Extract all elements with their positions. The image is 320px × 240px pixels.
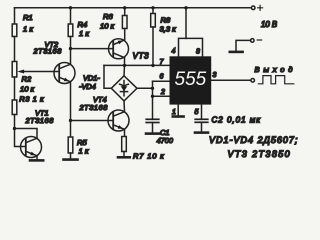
svg-text:6: 6 [160,74,164,81]
svg-text:2: 2 [160,89,165,96]
svg-text:8: 8 [196,49,200,56]
svg-text:R4: R4 [78,20,88,29]
resistor R3 [12,100,17,115]
wire node to VT4 base [71,120,114,122]
node rail R8 [151,6,154,9]
wiper arrow R2 [17,70,24,74]
diode bridge VD1-VD4 [111,76,137,101]
svg-text:R8: R8 [161,16,171,25]
svg-text:1 к: 1 к [79,29,89,38]
wire C1 column [152,81,154,119]
wire pin3 output [211,79,251,81]
wire pin1 to ground [177,105,179,116]
resistor R5 [68,137,73,153]
svg-text:R5: R5 [77,138,87,147]
resistor R4 [68,24,73,37]
wire VT2 emitter down [70,82,72,121]
wire C2 to ground [201,122,203,132]
wire rail to loop [185,8,187,39]
ground under R7 [118,156,130,159]
ground under C1 [146,132,159,135]
svg-text:5: 5 [195,109,199,116]
svg-text:3,3 к: 3,3 к [160,25,177,34]
svg-text:R7 10 к: R7 10 к [133,152,165,161]
wire VT3 bottom [124,58,126,66]
svg-text:C2 0,01 мк: C2 0,01 мк [212,116,262,125]
svg-text:2T3168: 2T3168 [25,116,55,125]
resistor R2 (pot) [12,62,17,78]
wire R7 to ground [123,152,125,157]
wire pin5 to C2 [201,105,203,120]
wire rail-R6 [124,8,126,15]
capacitor C2 [195,118,208,120]
svg-text:1 к: 1 к [23,25,33,34]
node bridge/C1 [151,87,154,90]
svg-text:2T3168: 2T3168 [33,47,63,56]
node R4/VT2/VT3 [69,47,72,50]
ground under pin1 [173,115,184,118]
svg-text:1 к: 1 к [79,147,89,156]
svg-text:R3 1 к: R3 1 к [19,95,44,104]
resistor R1 [12,24,17,37]
wire node to VT1 collector [15,129,38,139]
svg-text:4700: 4700 [157,136,174,145]
wire pins 4-8 loop [179,38,203,56]
wire R4 to node [70,37,72,49]
svg-text:R1: R1 [23,13,33,22]
minus sign [257,39,261,41]
terminal output [251,79,255,83]
wire loop to bridge left [104,65,111,88]
wire R3 to VT1 base [15,115,26,147]
ground under R5 [64,158,78,161]
transistor VT4 [108,110,129,131]
svg-text:VT3 2T3850: VT3 2T3850 [228,149,292,159]
wire VT4 emitter to R7 [124,129,126,136]
node VT3/line [123,64,126,67]
svg-text:VD1-VD4 2Д5607;: VD1-VD4 2Д5607; [209,135,298,145]
resistor R6 [122,16,127,29]
svg-text:R2: R2 [22,75,32,84]
wire C1 to ground [152,123,154,133]
svg-text:10 к: 10 к [100,22,115,31]
svg-text:3: 3 [213,72,217,79]
wire R5 to ground [70,153,72,159]
wire R6 to VT3 [124,29,126,40]
node pin2/C1 [151,95,154,98]
node R8/line [151,64,154,67]
terminal minus [251,39,255,43]
resistor R7 [122,137,127,152]
wire bridge right to C1 node [137,87,153,89]
wire top +rail [15,7,252,9]
svg-text:10 к: 10 к [20,84,35,93]
node VT2e/R5/VT4b [69,119,72,122]
wire line to bridge top [123,65,126,75]
plus sign [258,5,263,10]
transistor VT2 [54,63,75,84]
svg-text:10 В: 10 В [261,20,277,29]
svg-text:R6: R6 [103,12,113,21]
wire R2-R3 [14,77,16,100]
wire VT1 emitter [36,156,38,160]
wire node to R5 [70,121,72,138]
wire node to VT3 base [71,48,114,50]
wire R1-R2 [14,37,16,62]
terminal +10V [251,6,255,10]
wire rail-R8 [152,8,154,14]
svg-text:1: 1 [172,109,176,116]
svg-text:Выход: Выход [255,65,297,74]
wire rail-R4 [70,8,72,24]
wire VT2 base to R2 wiper [21,71,59,73]
wire pin6 [153,80,170,82]
svg-text:VT3: VT3 [133,51,150,60]
svg-text:2T3168: 2T3168 [79,103,109,112]
wire minus to ground [236,40,251,51]
ground under VT1 [30,159,43,162]
ground under minus [230,51,243,54]
transistor VT3 [109,39,129,59]
wire node line pin7 [104,64,170,66]
wire pin2 [153,95,170,97]
wire node to VT2 collector [70,49,72,64]
node R3-VT1 [13,127,16,130]
resistor R8 [151,14,156,28]
wire R8 to pin7 line [152,27,154,65]
ground under C2 [195,131,208,134]
node rail R6 [123,6,126,9]
node rail R4 [69,6,72,9]
node rail loop [184,6,187,9]
wire left column [14,8,16,24]
IC U1 555 [170,56,212,104]
waveform symbol [258,76,293,84]
svg-text:-VD4: -VD4 [79,82,96,91]
capacitor C1 [146,118,159,120]
svg-text:4: 4 [172,48,176,55]
wire bridge bottom to VT4 [123,101,126,111]
svg-text:555: 555 [175,69,207,90]
transistor VT1 [21,137,42,158]
